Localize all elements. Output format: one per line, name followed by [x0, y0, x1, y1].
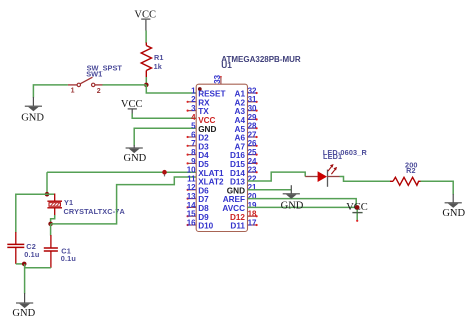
svg-text:D13: D13	[230, 178, 245, 187]
pin 1 indicator	[198, 87, 202, 91]
svg-text:GND: GND	[281, 200, 304, 211]
pin 26 label A7	[235, 139, 258, 151]
pin 3 stub	[187, 110, 197, 112]
pin 17 label D11	[230, 218, 257, 230]
wire junction to bottom ground	[24, 264, 26, 294]
svg-text:TX: TX	[198, 107, 209, 116]
pin 29 stub	[248, 118, 258, 120]
svg-text:GND: GND	[124, 153, 147, 164]
svg-text:LED1: LED1	[323, 152, 342, 161]
svg-text:29: 29	[248, 113, 257, 122]
svg-text:A2: A2	[235, 98, 246, 107]
power symbol VCC rotated	[346, 202, 368, 222]
pin 29 label A4	[235, 113, 258, 125]
wire VCC to pin 4	[132, 114, 196, 119]
svg-text:12: 12	[187, 183, 196, 192]
pin 8 stub	[187, 154, 197, 156]
svg-text:10: 10	[187, 166, 196, 175]
svg-text:2: 2	[97, 88, 101, 95]
ground right	[442, 194, 465, 219]
wire crystal to pin 10	[47, 171, 196, 173]
pin 7 label D3	[191, 139, 209, 151]
svg-text:D10: D10	[198, 222, 213, 231]
svg-text:25: 25	[248, 148, 257, 157]
pin 8 label D4	[191, 148, 209, 160]
svg-text:D16: D16	[230, 151, 245, 160]
pin 3 label TX	[191, 104, 209, 116]
svg-text:D11: D11	[230, 222, 245, 231]
svg-text:SW1: SW1	[86, 70, 102, 79]
node junction VCC/AREF/AVCC	[355, 205, 360, 210]
wire junction to pin 1	[146, 85, 196, 93]
pin 24 label D15	[230, 157, 257, 169]
wire junction to pin 11	[51, 177, 197, 224]
pin 18 stub	[248, 215, 258, 217]
wire VCC to R1	[145, 31, 147, 44]
resistor R1 1k	[141, 43, 163, 78]
svg-text:Y1: Y1	[64, 198, 73, 207]
capacitor C1 0.1u	[44, 235, 76, 268]
pin 27 stub	[248, 136, 258, 138]
pin 26 stub	[248, 145, 258, 147]
pin 6 stub	[187, 136, 197, 138]
svg-text:D2: D2	[198, 134, 209, 143]
pin 12 label D6	[187, 183, 209, 195]
wire crystal bottom jog	[51, 215, 55, 224]
pin 9 stub	[187, 162, 197, 164]
svg-text:D8: D8	[198, 204, 209, 213]
svg-text:A3: A3	[235, 107, 246, 116]
svg-text:D15: D15	[230, 160, 245, 169]
svg-text:AVCC: AVCC	[222, 204, 245, 213]
svg-text:AREF: AREF	[223, 195, 245, 204]
svg-text:GND: GND	[227, 186, 245, 195]
svg-text:17: 17	[248, 218, 257, 227]
pin 1 label RESET	[191, 86, 225, 98]
wire C2 to bottom junction	[16, 263, 24, 265]
svg-text:ATMEGA328PB-MUR: ATMEGA328PB-MUR	[221, 55, 301, 64]
pin 32 label A1	[235, 86, 258, 98]
pin 9 label D5	[191, 157, 209, 169]
pin 23 stub	[248, 171, 258, 173]
ground bottom	[12, 293, 35, 319]
svg-text:28: 28	[248, 122, 257, 131]
pin 31 label A2	[235, 95, 258, 107]
svg-text:33: 33	[213, 74, 222, 83]
node junction crystal top	[45, 192, 50, 197]
pin 25 stub	[248, 154, 258, 156]
pin 15 label D9	[187, 210, 209, 222]
wire down to crystal top junction	[46, 172, 48, 194]
svg-text:0.1u: 0.1u	[61, 254, 76, 263]
pin 14 label D8	[187, 201, 209, 213]
crystal Y1 CRYSTALTXC-7A	[47, 194, 125, 216]
wire R1 to junction	[145, 77, 147, 85]
pin 5 label GND	[191, 122, 216, 134]
svg-text:GND: GND	[12, 308, 35, 319]
pin 6 label D2	[191, 130, 209, 142]
svg-text:1: 1	[71, 87, 75, 94]
svg-text:19: 19	[248, 201, 257, 210]
svg-text:A6: A6	[235, 134, 246, 143]
svg-text:GND: GND	[21, 112, 44, 123]
wire junction to C1	[50, 224, 52, 236]
svg-text:D14: D14	[230, 169, 245, 178]
svg-text:15: 15	[187, 210, 196, 219]
pin 19 label AVCC	[222, 201, 257, 213]
svg-text:26: 26	[248, 139, 257, 148]
svg-text:D7: D7	[198, 195, 209, 204]
pin 30 stub	[248, 110, 258, 112]
wire junction to crystal	[47, 193, 55, 195]
pin 13 stub	[187, 198, 197, 200]
wire pin 22 D13 to LED	[248, 172, 306, 181]
svg-text:RESET: RESET	[198, 90, 225, 99]
pin 11 label XLAT2	[187, 174, 224, 186]
pin 24 stub	[248, 162, 258, 164]
svg-text:D5: D5	[198, 160, 209, 169]
svg-text:XLAT2: XLAT2	[198, 178, 224, 187]
svg-text:27: 27	[248, 130, 257, 139]
IC U1 ATMEGA328PB-MUR body	[196, 84, 247, 231]
pin 18 label D12	[230, 210, 257, 222]
svg-text:U1: U1	[221, 60, 232, 70]
wire pin 19 AVCC to VCC junction	[248, 206, 358, 208]
svg-text:D3: D3	[198, 142, 209, 151]
svg-text:5: 5	[191, 122, 196, 131]
svg-text:3: 3	[191, 104, 196, 113]
power symbol VCC top	[134, 9, 156, 30]
svg-text:14: 14	[187, 201, 196, 210]
svg-text:XLAT1: XLAT1	[198, 169, 224, 178]
ground pin 21	[281, 185, 304, 211]
svg-text:31: 31	[248, 95, 257, 104]
node junction R1/SW1/RESET	[144, 83, 149, 88]
svg-text:D12: D12	[230, 213, 245, 222]
svg-text:A5: A5	[235, 125, 246, 134]
switch SW1 SW_SPST	[68, 64, 123, 95]
svg-text:GND: GND	[198, 125, 216, 134]
svg-text:R1: R1	[154, 53, 164, 62]
pin 12 stub	[187, 189, 197, 191]
svg-text:A4: A4	[235, 116, 246, 125]
wire LED to R2	[340, 177, 391, 182]
wire switch to left ground	[33, 85, 68, 98]
svg-text:13: 13	[187, 192, 196, 201]
svg-text:RX: RX	[198, 98, 210, 107]
svg-text:11: 11	[187, 174, 196, 183]
pin 2 label RX	[191, 95, 210, 107]
pin 4 label VCC	[191, 113, 215, 125]
wire pin 20 AREF to VCC junction	[248, 199, 358, 208]
wire junction to C2	[16, 194, 47, 232]
pin 13 label D7	[187, 192, 209, 204]
pin 14 stub	[187, 206, 197, 208]
pin 31 stub	[248, 101, 258, 103]
pin 23 label D14	[230, 166, 257, 178]
pin 28 stub	[248, 127, 258, 129]
pin 2 stub	[187, 101, 197, 103]
svg-text:1: 1	[191, 86, 196, 95]
svg-text:R2: R2	[406, 166, 416, 175]
svg-text:GND: GND	[442, 208, 465, 219]
wire junction to switch	[102, 84, 146, 86]
pin 16 label D10	[187, 218, 214, 230]
wire C1 to bottom junction	[25, 264, 51, 268]
pin 33 stub	[213, 74, 222, 84]
pin 15 stub	[187, 215, 197, 217]
ground middle	[124, 145, 147, 164]
resistor R2 200	[390, 160, 421, 185]
svg-text:1k: 1k	[154, 62, 163, 71]
svg-text:2: 2	[191, 95, 196, 104]
wire pin 5 to middle ground	[134, 128, 196, 145]
ground left	[21, 97, 44, 123]
LED LED1 LED-0603_R	[305, 148, 367, 187]
svg-text:21: 21	[248, 183, 257, 192]
svg-text:D9: D9	[198, 213, 209, 222]
svg-text:20: 20	[248, 192, 257, 201]
svg-text:18: 18	[248, 210, 257, 219]
wire pin 21 GND	[248, 189, 292, 191]
pin 7 stub	[187, 145, 197, 147]
pin 30 label A3	[235, 104, 258, 116]
svg-text:23: 23	[248, 166, 257, 175]
pin 10 label XLAT1	[187, 166, 224, 178]
pin 20 label AREF	[223, 192, 257, 204]
svg-text:32: 32	[248, 86, 257, 95]
node junction capacitors	[22, 262, 27, 267]
wire R2 to right ground	[421, 181, 454, 194]
svg-text:6: 6	[191, 130, 196, 139]
pin 25 label D16	[230, 148, 257, 160]
node junction crystal bottom	[48, 222, 53, 227]
svg-text:24: 24	[248, 157, 257, 166]
capacitor C2 0.1u	[7, 232, 39, 264]
svg-text:VCC: VCC	[198, 116, 215, 125]
svg-text:7: 7	[191, 139, 196, 148]
power symbol VCC middle	[121, 99, 143, 114]
svg-text:D6: D6	[198, 186, 209, 195]
pin 17 stub	[248, 224, 258, 226]
pin 27 label A6	[235, 130, 258, 142]
pin 16 stub	[187, 224, 197, 226]
svg-text:A7: A7	[235, 142, 246, 151]
svg-text:9: 9	[191, 157, 196, 166]
svg-text:30: 30	[248, 104, 257, 113]
pin 22 label D13	[230, 174, 257, 186]
node bendpoint on pin 10 wire	[164, 172, 166, 176]
svg-text:0.1u: 0.1u	[24, 250, 39, 259]
svg-text:A1: A1	[235, 90, 246, 99]
svg-text:8: 8	[191, 148, 196, 157]
svg-text:22: 22	[248, 174, 257, 183]
svg-text:4: 4	[191, 113, 196, 122]
pin 28 label A5	[235, 122, 258, 134]
svg-text:D4: D4	[198, 151, 209, 160]
svg-text:16: 16	[187, 218, 196, 227]
pin 21 label GND	[227, 183, 257, 195]
pin 32 stub	[248, 92, 258, 94]
